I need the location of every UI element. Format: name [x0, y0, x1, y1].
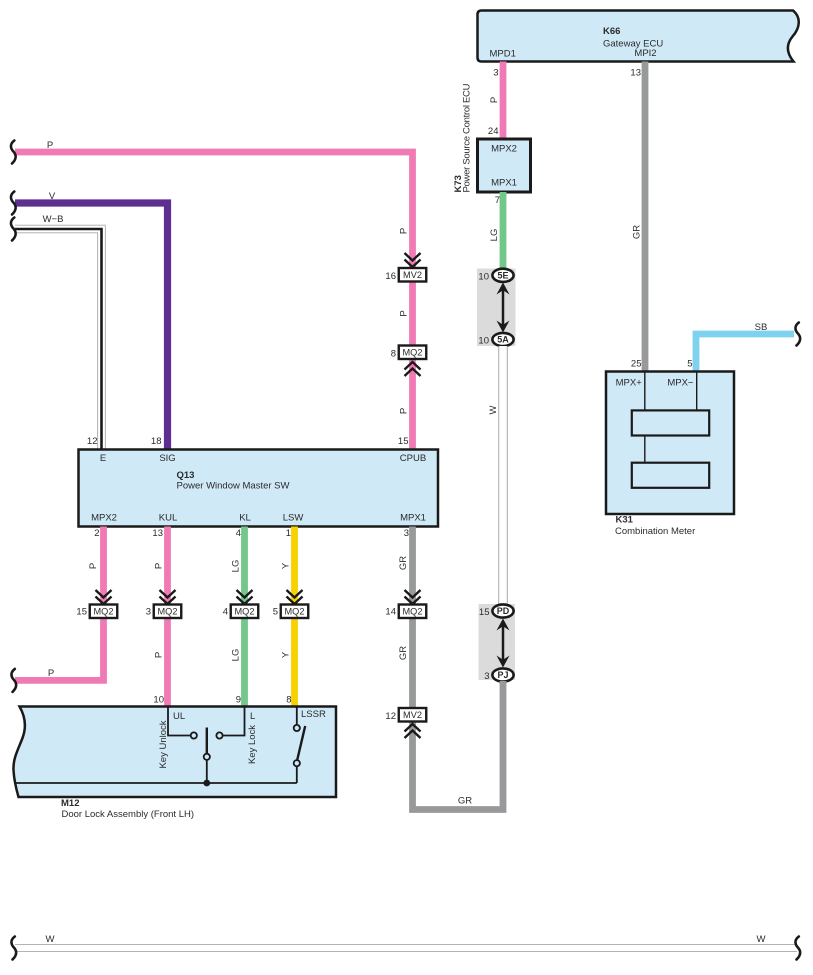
svg-text:3: 3	[146, 607, 151, 618]
K31 internal lead between blocks	[644, 436, 646, 463]
wire color label GR (below MQ2)	[398, 646, 409, 660]
K73 pin MPX1 label	[491, 178, 517, 189]
svg-text:MV2: MV2	[403, 270, 422, 280]
pin 14 (MQ2)	[385, 607, 396, 618]
svg-text:E: E	[100, 453, 106, 464]
chevron out of MQ2	[405, 362, 421, 376]
K73 Power Source Control ECU box	[478, 139, 531, 192]
Key Lock label (rotated)	[247, 725, 258, 764]
M12 Door Lock Assembly box	[13, 707, 336, 798]
connector MQ2 (8)	[399, 346, 427, 360]
wire color label Y (above MQ2)	[281, 562, 292, 569]
svg-text:SIG: SIG	[159, 453, 175, 464]
wire color label P (above CPUB)	[399, 408, 410, 414]
svg-text:3: 3	[484, 671, 489, 682]
Q13 pin E label	[100, 453, 106, 464]
pin 3 (PJ)	[484, 671, 489, 682]
connector MV2 (12)	[399, 708, 427, 722]
Q13 pin SIG label	[159, 453, 175, 464]
svg-text:W: W	[757, 934, 766, 945]
pin 5 (MQ2)	[273, 607, 278, 618]
svg-text:PD: PD	[497, 606, 510, 616]
wire LG from K73 MPX1 to connector 5E	[500, 192, 507, 270]
Key Unlock label (rotated)	[158, 720, 169, 768]
break symbol P top left	[11, 141, 16, 164]
M12 pin UL label	[173, 711, 185, 722]
M12 internal L lead and contact	[216, 707, 244, 739]
pin 16 (MV2)	[385, 271, 396, 282]
wire P from left break to Q13 CPUB pin 15	[15, 152, 413, 450]
svg-text:W: W	[488, 405, 499, 414]
K31 pin MPX+ label	[616, 378, 643, 389]
M12 pin LSSR label	[301, 709, 326, 720]
Q13 pin MPX2 label	[91, 513, 117, 524]
svg-text:P: P	[154, 563, 165, 569]
wire color label W	[488, 405, 499, 414]
wire color label P (above MV2)	[399, 228, 410, 234]
Q13 pin CPUB label	[400, 453, 426, 464]
svg-text:MPX1: MPX1	[491, 178, 517, 189]
K66 label	[603, 26, 620, 37]
connector MQ2 (5)	[281, 605, 309, 619]
pin 4 (MQ2)	[223, 607, 228, 618]
wire color label W (bottom right)	[757, 934, 766, 945]
K73 label (rotated)	[453, 175, 464, 192]
svg-text:24: 24	[488, 126, 499, 137]
svg-text:MPX−: MPX−	[667, 378, 694, 389]
svg-text:P: P	[399, 408, 410, 414]
Q13 pin LSW label	[283, 513, 304, 524]
wire color label GR	[632, 225, 643, 239]
svg-text:GR: GR	[632, 225, 643, 239]
svg-text:10: 10	[478, 272, 489, 283]
svg-text:1: 1	[286, 528, 291, 539]
svg-text:5A: 5A	[497, 335, 509, 345]
Q13 label	[177, 470, 195, 481]
svg-text:MQ2: MQ2	[158, 607, 178, 617]
pin 15 (Q13 CPUB)	[398, 436, 409, 447]
svg-text:GR: GR	[398, 646, 409, 660]
Q13 Power Window Master SW box	[79, 450, 439, 527]
pin 13 (Q13 KUL)	[152, 528, 163, 539]
svg-text:LG: LG	[231, 560, 242, 573]
wire V from left break to Q13 SIG pin 18	[15, 203, 168, 450]
pin 8 (M12 LSSR)	[286, 695, 291, 706]
Power Source Control ECU label (rotated)	[462, 83, 473, 192]
pin 5 (K31 MPX-)	[687, 359, 692, 370]
svg-text:LSW: LSW	[283, 513, 304, 524]
wire color label V	[49, 191, 56, 202]
wire LG from Q13 KL pin 4 to M12 L pin 9	[241, 527, 248, 707]
connector oval 5A	[492, 333, 513, 346]
svg-text:8: 8	[286, 695, 291, 706]
junction dot on bus	[203, 780, 210, 787]
svg-text:Key Unlock: Key Unlock	[158, 720, 169, 768]
svg-text:9: 9	[236, 695, 241, 706]
svg-text:L: L	[250, 711, 255, 722]
wire color label W-B	[43, 214, 64, 225]
chevron into MQ2 (5)	[287, 590, 303, 604]
wire P from Q13 MPX2 pin 2 to left break	[15, 527, 104, 681]
connector MQ2 (4)	[231, 605, 259, 619]
chevron into MV2	[405, 253, 421, 267]
svg-text:LSSR: LSSR	[301, 709, 326, 720]
svg-text:MQ2: MQ2	[285, 607, 305, 617]
connector MV2 (16)	[399, 268, 427, 282]
svg-text:Y: Y	[281, 651, 292, 658]
svg-text:P: P	[399, 228, 410, 234]
svg-text:3: 3	[493, 68, 498, 79]
svg-text:15: 15	[398, 436, 409, 447]
chevron into MQ2 (15)	[96, 590, 112, 604]
connector oval 5E	[492, 269, 513, 282]
pin 3 (K66 MPD1)	[493, 68, 498, 79]
svg-text:Door Lock Assembly (Front LH): Door Lock Assembly (Front LH)	[62, 809, 195, 820]
wire Y from Q13 LSW pin 1 to M12 LSSR pin 8	[291, 527, 298, 707]
svg-text:15: 15	[76, 607, 87, 618]
svg-text:K31: K31	[616, 515, 634, 526]
svg-text:MQ2: MQ2	[403, 607, 423, 617]
pin 3 (Q13 MPX1)	[404, 528, 409, 539]
connector MQ2 (15)	[90, 605, 118, 619]
svg-text:4: 4	[223, 607, 228, 618]
wire color label P (KUL above MQ2)	[154, 563, 165, 569]
K31 internal lead MPX+	[644, 373, 646, 411]
chevron into MQ2 (4)	[237, 590, 253, 604]
connector MQ2 (14)	[399, 605, 427, 619]
M12 label	[61, 798, 79, 809]
svg-text:Combination Meter: Combination Meter	[615, 526, 695, 537]
svg-text:Power Source Control ECU: Power Source Control ECU	[462, 83, 473, 192]
svg-text:MPX2: MPX2	[491, 144, 517, 155]
svg-text:Key Lock: Key Lock	[247, 725, 258, 764]
svg-text:14: 14	[385, 607, 396, 618]
break symbol P bottom left	[11, 669, 16, 692]
svg-text:MPI2: MPI2	[634, 48, 656, 59]
wire color label P	[489, 97, 500, 103]
svg-text:MPX2: MPX2	[91, 513, 117, 524]
svg-text:16: 16	[385, 271, 396, 282]
M12 internal UL lead and contact	[168, 707, 197, 739]
connector shade 5E/5A	[477, 269, 516, 347]
pin 10 (5A)	[478, 336, 489, 347]
pin 1 (Q13 LSW)	[286, 528, 291, 539]
K31 label	[616, 515, 634, 526]
svg-text:MQ2: MQ2	[403, 348, 423, 358]
svg-text:13: 13	[152, 528, 163, 539]
svg-text:GR: GR	[458, 796, 472, 807]
wire P from Q13 KUL pin 13 to M12 UL pin 10	[164, 527, 171, 707]
pin 25 (K31 MPX+)	[631, 359, 642, 370]
svg-text:KUL: KUL	[159, 513, 177, 524]
wire color label LG (above MQ2)	[231, 560, 242, 573]
svg-text:PJ: PJ	[497, 670, 508, 680]
pin 12 (MV2)	[385, 711, 396, 722]
M12 internal bus wire	[15, 782, 297, 784]
wire color label W (bottom left)	[46, 934, 55, 945]
break symbol SB right	[795, 323, 800, 346]
svg-text:MPX+: MPX+	[616, 378, 643, 389]
connector MQ2 (3)	[154, 605, 182, 619]
chevron into MQ2 (3)	[160, 590, 176, 604]
K73 pin MPX2 label	[491, 144, 517, 155]
K31 internal lead MPX-	[696, 373, 698, 411]
svg-text:13: 13	[630, 68, 641, 79]
wire color label SB	[755, 322, 768, 333]
svg-text:18: 18	[151, 436, 162, 447]
pin 9 (M12 L)	[236, 695, 241, 706]
svg-text:SB: SB	[755, 322, 768, 333]
wire color label GR (bottom run)	[458, 796, 472, 807]
wire color label P (bottom left)	[48, 668, 54, 679]
svg-text:MV2: MV2	[403, 710, 422, 720]
pin 24 (K73 MPX2)	[488, 126, 499, 137]
wire color label LG	[489, 229, 500, 242]
connector oval PD	[492, 604, 513, 617]
pin 13 (K66 MPI2)	[630, 68, 641, 79]
wire color label P (between MV2 and MQ2)	[399, 310, 410, 316]
svg-text:V: V	[49, 191, 56, 202]
svg-text:MQ2: MQ2	[235, 607, 255, 617]
pin 15 (PD)	[479, 607, 490, 618]
svg-text:10: 10	[153, 695, 164, 706]
pin 7 (K73 MPX1)	[495, 195, 500, 206]
pin 4 (Q13 KL)	[236, 528, 241, 539]
wire GR from Q13 MPX1 pin 3 to PJ connector	[413, 527, 504, 810]
svg-text:MPX1: MPX1	[400, 513, 426, 524]
wire P from K66 MPD1 pin 3 to K73 MPX2 pin 24	[500, 62, 507, 140]
break symbol V	[11, 192, 16, 215]
Q13 pin MPX1 label	[400, 513, 426, 524]
pin 8 (MQ2)	[391, 349, 396, 360]
break symbol W-B	[11, 218, 16, 241]
svg-text:P: P	[48, 668, 54, 679]
svg-text:CPUB: CPUB	[400, 453, 426, 464]
svg-text:2: 2	[94, 528, 99, 539]
pin 15 (MQ2)	[76, 607, 87, 618]
wire W-B from left break to Q13 E pin 12	[15, 229, 102, 450]
K66 Gateway ECU box	[478, 11, 799, 62]
K31 internal block 2	[632, 463, 709, 488]
svg-text:5: 5	[687, 359, 692, 370]
svg-text:W−B: W−B	[43, 214, 64, 225]
K31 pin MPX- label	[667, 378, 694, 389]
svg-text:K66: K66	[603, 26, 620, 37]
chevron out of MV2 (12)	[405, 724, 421, 738]
svg-text:P: P	[154, 652, 165, 658]
Door Lock Assembly label	[62, 809, 195, 820]
pin 12 (Q13 E)	[87, 436, 98, 447]
wire SB from right break to K31 MPX- pin 5	[696, 334, 794, 372]
svg-text:M12: M12	[61, 798, 79, 809]
svg-text:12: 12	[87, 436, 98, 447]
chevron into MQ2 (14)	[405, 590, 421, 604]
svg-text:Y: Y	[281, 562, 292, 569]
junction arrow 5E-5A	[497, 283, 510, 333]
svg-text:5E: 5E	[497, 271, 508, 281]
Gateway ECU label	[603, 38, 663, 49]
K31 Combination Meter box	[606, 372, 734, 515]
svg-text:GR: GR	[398, 556, 409, 570]
svg-text:LG: LG	[231, 649, 242, 662]
svg-text:15: 15	[479, 607, 490, 618]
svg-text:P: P	[489, 97, 500, 103]
wire color label Y (below MQ2)	[281, 651, 292, 658]
junction arrow PD-PJ	[497, 619, 510, 668]
K31 internal block 1	[632, 410, 709, 435]
break symbol W bottom left	[11, 937, 16, 960]
svg-text:KL: KL	[239, 513, 251, 524]
svg-text:4: 4	[236, 528, 241, 539]
pin 18 (Q13 SIG)	[151, 436, 162, 447]
pin 2 (Q13 MPX2)	[94, 528, 99, 539]
wire W from 5A to PD	[498, 346, 507, 605]
svg-text:Power Window Master SW: Power Window Master SW	[177, 481, 290, 492]
wire color label LG (below MQ2)	[231, 649, 242, 662]
wire GR from K66 MPI2 pin 13 to K31 MPX+ pin 25	[642, 62, 649, 372]
svg-text:MQ2: MQ2	[94, 607, 114, 617]
wire W bottom bus	[15, 944, 797, 952]
svg-text:W: W	[46, 934, 55, 945]
svg-text:P: P	[399, 310, 410, 316]
svg-text:5: 5	[273, 607, 278, 618]
Q13 pin KL label	[239, 513, 251, 524]
svg-text:8: 8	[391, 349, 396, 360]
connector oval PJ	[492, 668, 513, 681]
break symbol W bottom right	[795, 937, 800, 960]
svg-text:P: P	[47, 140, 53, 151]
wire color label GR (above MQ2)	[398, 556, 409, 570]
Power Window Master SW label	[177, 481, 290, 492]
pin 10 (5E)	[478, 272, 489, 283]
svg-text:7: 7	[495, 195, 500, 206]
wire color label P (MPX2 col)	[88, 563, 99, 569]
M12 LSSR switch	[294, 707, 306, 784]
Q13 pin KUL label	[159, 513, 177, 524]
pin 10 (M12 UL)	[153, 695, 164, 706]
M12 key switch arm	[204, 728, 210, 784]
svg-text:LG: LG	[489, 229, 500, 242]
svg-text:12: 12	[385, 711, 396, 722]
Combination Meter label	[615, 526, 695, 537]
K66 pin MPD1 label	[489, 49, 515, 60]
svg-text:UL: UL	[173, 711, 185, 722]
K66 pin MPI2 label	[634, 48, 656, 59]
M12 pin L label	[250, 711, 255, 722]
svg-text:25: 25	[631, 359, 642, 370]
svg-text:3: 3	[404, 528, 409, 539]
svg-text:10: 10	[478, 336, 489, 347]
svg-text:P: P	[88, 563, 99, 569]
connector shade PD/PJ	[479, 604, 516, 680]
svg-text:MPD1: MPD1	[489, 49, 515, 60]
wire color label P (top left)	[47, 140, 53, 151]
pin 3 (MQ2)	[146, 607, 151, 618]
wire color label P (KUL below MQ2)	[154, 652, 165, 658]
